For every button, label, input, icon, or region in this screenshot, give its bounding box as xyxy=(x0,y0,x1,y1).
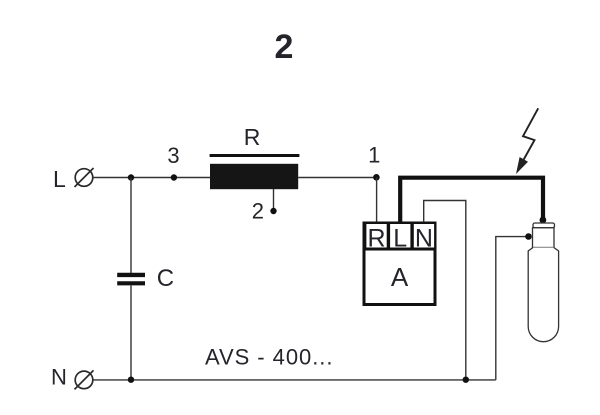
capacitor C xyxy=(117,265,174,292)
svg-text:N: N xyxy=(415,224,433,252)
lamp neck xyxy=(533,228,555,248)
svg-text:2: 2 xyxy=(252,199,264,224)
junction: N line to ignitor N xyxy=(463,377,469,383)
ballast R body xyxy=(210,164,298,189)
wire R to node 1 xyxy=(298,177,376,179)
ignitor terminal cell L xyxy=(390,224,410,252)
wire L horizontal xyxy=(93,177,210,179)
wire: ignitor N up-over-down to N line xyxy=(424,201,466,380)
terminal L xyxy=(53,166,94,192)
junction: L line to C branch xyxy=(128,174,134,180)
wire N horizontal xyxy=(93,379,496,381)
svg-text:R: R xyxy=(244,124,261,150)
ignitor A top band xyxy=(363,222,437,251)
thick wire: ignitor L to lamp top xyxy=(400,178,543,222)
node 2 xyxy=(252,199,277,224)
node 1 xyxy=(368,143,380,181)
wire L branch down to capacitor xyxy=(130,178,132,274)
svg-text:C: C xyxy=(157,265,174,292)
svg-text:L: L xyxy=(393,224,407,252)
wire: N line corner up to lamp base xyxy=(496,237,529,380)
ballast R core line xyxy=(210,154,300,157)
svg-text:AVS - 400...: AVS - 400... xyxy=(205,345,333,370)
wire capacitor to N line xyxy=(130,285,132,379)
terminal N xyxy=(51,365,94,390)
svg-text:N: N xyxy=(51,365,67,390)
junction at lamp base xyxy=(525,233,532,240)
lamp top connection dot xyxy=(540,217,547,224)
node 3 xyxy=(167,143,179,181)
svg-text:L: L xyxy=(53,166,66,192)
lamp cap bar xyxy=(533,223,555,228)
wire node 1 to ignitor R terminal xyxy=(376,177,378,222)
svg-text:2: 2 xyxy=(275,28,294,66)
svg-text:R: R xyxy=(367,224,385,252)
ignitor terminal cell R xyxy=(366,224,386,252)
lightning arrow xyxy=(516,108,538,174)
lamp bulb xyxy=(528,248,558,342)
svg-text:A: A xyxy=(391,262,409,292)
junction: N line to C branch xyxy=(128,377,134,383)
ignitor terminal cell N xyxy=(414,224,434,252)
ignitor A outer box xyxy=(364,223,435,305)
svg-text:3: 3 xyxy=(167,143,179,168)
node 2 tap wire xyxy=(273,189,275,211)
svg-text:1: 1 xyxy=(368,143,380,168)
